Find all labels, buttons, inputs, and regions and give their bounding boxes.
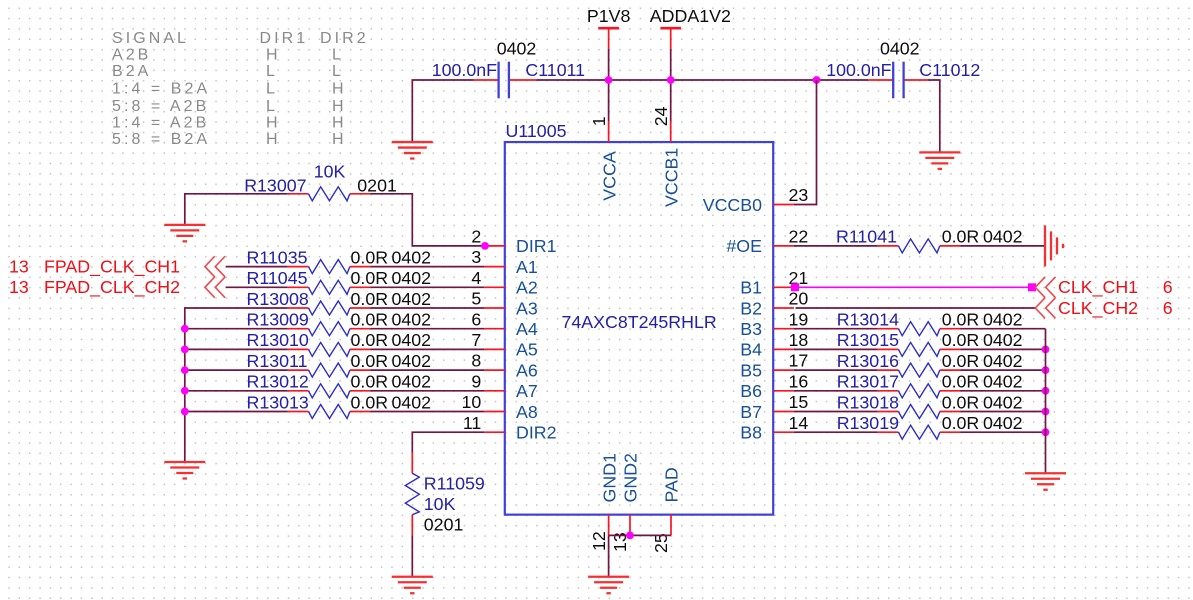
U11005 pin 25 (PAD): [651, 467, 681, 553]
svg-text:12: 12: [589, 531, 609, 551]
wire B2 to port CLK_CH2: [796, 307, 1036, 309]
svg-text:DIR1: DIR1: [516, 236, 557, 256]
svg-text:PAD: PAD: [662, 467, 682, 502]
svg-text:0402: 0402: [983, 310, 1023, 330]
svg-text:L: L: [266, 81, 278, 98]
svg-text:H: H: [332, 115, 347, 132]
svg-text:0402: 0402: [392, 268, 432, 288]
svg-text:H: H: [332, 81, 347, 98]
wire pin to R13018: [794, 411, 878, 413]
ground (R11041, rotated): [1045, 225, 1063, 266]
U11005 pin 18 (B4): [740, 330, 808, 360]
wire FPAD_CLK_CH2 to R11045: [226, 286, 288, 288]
svg-text:15: 15: [789, 392, 809, 412]
resistor R13018: [878, 405, 961, 419]
resistor R13010: [288, 342, 371, 356]
svg-text:ADDA1V2: ADDA1V2: [650, 6, 731, 26]
svg-text:0.0R: 0.0R: [351, 268, 389, 288]
op-amp U11005 body (level translator 74AXC8T245RHLR): [505, 142, 773, 515]
svg-text:R13009: R13009: [247, 310, 309, 330]
svg-text:1:4 = B2A: 1:4 = B2A: [112, 81, 210, 98]
svg-text:H: H: [266, 115, 281, 132]
svg-text:R11035: R11035: [247, 247, 308, 267]
wire VCCB0 riser: [794, 80, 817, 205]
svg-text:10: 10: [462, 392, 482, 412]
svg-text:9: 9: [471, 371, 481, 391]
svg-text:0201: 0201: [424, 515, 464, 535]
svg-text:1: 1: [589, 116, 609, 126]
svg-text:0402: 0402: [392, 372, 432, 392]
junction right bus B5: [1042, 366, 1050, 374]
capacitor C11011: [474, 62, 537, 99]
svg-text:B8: B8: [740, 423, 762, 443]
svg-text:19: 19: [789, 309, 809, 329]
resistor R13008: [288, 301, 371, 315]
junction right bus B7: [1042, 408, 1050, 416]
U11005 pin 1 (VCCA): [589, 116, 620, 200]
wire R13008 to pin: [371, 307, 485, 309]
svg-text:0.0R: 0.0R: [351, 392, 389, 412]
wire GND net to ground: [608, 535, 610, 576]
U11005 pin 2 (DIR1): [471, 227, 556, 257]
U11005 pin 4 (A2): [471, 268, 537, 298]
svg-text:0402: 0402: [983, 413, 1023, 433]
resistor R13007: [288, 187, 371, 201]
svg-text:A1: A1: [516, 257, 538, 277]
svg-text:FPAD_CLK_CH1: FPAD_CLK_CH1: [44, 256, 180, 277]
svg-text:R13012: R13012: [247, 372, 309, 392]
svg-text:B6: B6: [740, 381, 762, 401]
svg-text:R13016: R13016: [837, 351, 899, 371]
svg-text:R11041: R11041: [836, 227, 897, 247]
svg-text:VCCB0: VCCB0: [703, 195, 762, 215]
wire DIR2 to R11059: [412, 432, 484, 452]
U11005 pin 19 (B3): [740, 309, 808, 339]
wire pin to R13014: [794, 328, 878, 330]
svg-text:L: L: [332, 63, 344, 80]
U11005 pin 17 (B5): [740, 351, 808, 381]
U11005 pin 13 (GND2): [610, 453, 641, 552]
svg-text:13: 13: [9, 277, 29, 297]
svg-text:6: 6: [1163, 277, 1173, 297]
svg-text:0.0R: 0.0R: [942, 310, 980, 330]
svg-text:11: 11: [463, 413, 482, 433]
svg-text:2: 2: [471, 227, 481, 247]
wire bus to R1300x (A5): [185, 348, 288, 350]
U11005 pin 7 (A5): [471, 330, 537, 360]
svg-text:1:4 = A2B: 1:4 = A2B: [112, 115, 209, 132]
wire bus to R1300x (A6): [185, 369, 288, 371]
capacitor C11012: [868, 62, 928, 99]
svg-text:0402: 0402: [880, 39, 920, 59]
wire bus to R1300x (A8): [185, 411, 288, 413]
U11005 pin 21 (B1): [740, 268, 808, 298]
svg-text:B5: B5: [740, 360, 762, 380]
U11005 pin 14 (B8): [740, 413, 808, 443]
ground (right bus): [1025, 473, 1066, 490]
svg-text:A7: A7: [516, 381, 538, 401]
svg-text:6: 6: [1163, 298, 1173, 318]
resistor R13019: [878, 425, 961, 439]
svg-text:0.0R: 0.0R: [942, 330, 980, 350]
wire pin to R13017: [794, 390, 878, 392]
svg-text:R13018: R13018: [837, 392, 899, 412]
svg-text:0.0R: 0.0R: [351, 351, 389, 371]
svg-text:H: H: [266, 131, 281, 148]
svg-text:5:8 = B2A: 5:8 = B2A: [112, 131, 210, 148]
U11005 pin 8 (A6): [471, 351, 537, 381]
resistor R11045: [288, 280, 371, 294]
svg-text:13: 13: [9, 256, 29, 276]
svg-text:CLK_CH2: CLK_CH2: [1058, 298, 1138, 319]
net B1 CLK_CH1 (highlighted wire): [791, 283, 1036, 291]
U11005 pin 6 (A4): [471, 309, 537, 339]
svg-text:0402: 0402: [392, 247, 432, 267]
wire C11012 to ground: [928, 80, 940, 152]
wire C11011 to ground: [412, 80, 473, 142]
junction left bus A4: [181, 325, 189, 333]
svg-text:R13007: R13007: [244, 175, 306, 195]
resistor R13009: [288, 322, 371, 336]
resistor R11035: [288, 260, 371, 274]
svg-text:R11045: R11045: [247, 268, 308, 288]
svg-text:0.0R: 0.0R: [351, 247, 389, 267]
U11005 pin 5 (A3): [471, 289, 537, 319]
svg-text:A2B: A2B: [112, 47, 151, 64]
wire P1V8 rail to ADDA1V2 rail: [609, 79, 671, 81]
junction VCCB0 riser: [813, 76, 821, 84]
svg-text:C11011: C11011: [525, 60, 585, 80]
svg-text:0.0R: 0.0R: [942, 351, 980, 371]
port FPAD_CLK_CH1: [9, 256, 225, 277]
svg-text:0402: 0402: [983, 372, 1023, 392]
svg-text:10K: 10K: [424, 494, 456, 514]
svg-text:0.0R: 0.0R: [351, 372, 389, 392]
junction P1V8 / pin 1: [605, 76, 613, 84]
svg-text:16: 16: [789, 371, 809, 391]
svg-text:A6: A6: [516, 360, 538, 380]
power symbol ADDA1V2: [650, 6, 731, 49]
svg-text:DIR2: DIR2: [320, 30, 369, 47]
wire FPAD_CLK_CH1 to R11035: [226, 266, 288, 268]
svg-text:0402: 0402: [392, 310, 432, 330]
svg-text:0.0R: 0.0R: [942, 372, 980, 392]
wire P1V8 to VCCA pin 1: [608, 49, 610, 121]
U11005 pin 9 (A7): [471, 371, 537, 401]
svg-text:0.0R: 0.0R: [942, 227, 980, 247]
svg-text:100.0nF: 100.0nF: [432, 60, 497, 80]
wire R13015 to right bus: [961, 348, 1046, 350]
wire pin to R13016: [794, 369, 878, 371]
svg-text:B2: B2: [740, 298, 762, 318]
junction left bus A6: [181, 366, 189, 374]
svg-text:L: L: [266, 63, 278, 80]
resistor R13011: [288, 363, 371, 377]
U11005 pin 12 (GND1): [589, 453, 620, 551]
svg-text:A5: A5: [516, 340, 538, 360]
U11005 pin 20 (B2): [740, 289, 808, 319]
svg-text:B2A: B2A: [112, 63, 151, 80]
svg-text:R13015: R13015: [837, 330, 899, 350]
svg-text:C11012: C11012: [919, 60, 980, 80]
U11005 pin 24 (VCCB1): [651, 106, 682, 207]
wire pin to R13019: [794, 431, 878, 433]
wire R13016 to right bus: [961, 369, 1046, 371]
svg-text:DIR1: DIR1: [260, 30, 309, 47]
wire R13019 to right bus: [961, 431, 1046, 433]
junction left bus A7: [181, 387, 189, 395]
signal direction table: [112, 30, 369, 148]
svg-text:R13019: R13019: [837, 413, 899, 433]
svg-text:VCCB1: VCCB1: [662, 148, 682, 207]
port FPAD_CLK_CH2: [9, 277, 225, 298]
wire GND1/GND2/PAD tie: [609, 534, 671, 536]
resistor R13017: [878, 384, 961, 398]
ground (under C11011): [392, 142, 433, 159]
svg-text:0402: 0402: [497, 39, 537, 59]
svg-text:4: 4: [471, 268, 481, 288]
svg-text:0201: 0201: [357, 175, 397, 195]
svg-text:L: L: [266, 98, 278, 115]
wire R13017 to right bus: [961, 390, 1046, 392]
svg-text:0.0R: 0.0R: [351, 330, 389, 350]
U11005 pin 11 (DIR2): [463, 413, 557, 443]
svg-text:R13017: R13017: [837, 372, 899, 392]
svg-text:0.0R: 0.0R: [351, 289, 389, 309]
svg-text:0.0R: 0.0R: [942, 392, 980, 412]
svg-text:CLK_CH1: CLK_CH1: [1058, 277, 1138, 298]
svg-text:DIR2: DIR2: [516, 423, 557, 443]
svg-text:A4: A4: [516, 319, 538, 339]
U11005 pin 3 (A1): [471, 247, 537, 277]
junction right bus B8: [1042, 428, 1050, 436]
resistor R13014: [878, 322, 961, 336]
svg-text:H: H: [332, 131, 347, 148]
svg-text:0402: 0402: [392, 351, 432, 371]
wire #OE to R11041: [794, 245, 878, 247]
svg-text:SIGNAL: SIGNAL: [112, 30, 189, 47]
wire R11045 to pin: [371, 286, 485, 288]
wire R13018 to right bus: [961, 411, 1046, 413]
svg-text:0402: 0402: [983, 227, 1023, 247]
svg-text:U11005: U11005: [506, 121, 567, 141]
svg-text:R13013: R13013: [247, 392, 309, 412]
svg-text:6: 6: [471, 309, 481, 329]
wire R11041 to ground: [961, 245, 1046, 247]
svg-text:22: 22: [789, 227, 809, 247]
wire left bus (A3-A8 tie): [185, 308, 288, 462]
svg-text:0402: 0402: [392, 392, 432, 412]
svg-text:H: H: [332, 98, 347, 115]
wire R13007 to DIR1: [371, 194, 485, 246]
svg-text:0402: 0402: [392, 330, 432, 350]
ground (left bus): [164, 462, 205, 479]
svg-text:GND1: GND1: [600, 453, 620, 503]
junction right bus B4: [1042, 346, 1050, 354]
resistor R13012: [288, 384, 371, 398]
svg-text:GND2: GND2: [621, 453, 641, 502]
wire ADDA1V2 to VCCB1 pin 24: [670, 49, 672, 121]
svg-text:H: H: [266, 47, 281, 64]
wire R13007 left to ground: [185, 194, 288, 225]
svg-text:10K: 10K: [314, 162, 346, 182]
wire bus to R1300x (A4): [185, 328, 288, 330]
junction DIR1 pin 2: [481, 242, 489, 250]
svg-text:B3: B3: [740, 319, 762, 339]
svg-text:R11059: R11059: [424, 474, 485, 494]
ground (under C11012): [919, 152, 960, 169]
svg-text:B4: B4: [740, 340, 762, 360]
U11005 pin 23 (VCCB0): [703, 185, 809, 215]
port CLK_CH2: [1035, 298, 1173, 319]
junction left bus A5: [181, 346, 189, 354]
svg-text:14: 14: [789, 413, 809, 433]
wire R13010 to pin: [371, 348, 485, 350]
svg-text:R13011: R13011: [247, 351, 308, 371]
resistor R13013: [288, 405, 371, 419]
svg-text:24: 24: [651, 106, 671, 126]
wire R13009 to pin: [371, 328, 485, 330]
svg-text:0402: 0402: [392, 289, 432, 309]
svg-text:P1V8: P1V8: [587, 6, 631, 26]
port CLK_CH1: [1035, 277, 1173, 298]
wire R13012 to pin: [371, 390, 485, 392]
svg-text:0.0R: 0.0R: [942, 413, 980, 433]
resistor R11041: [878, 239, 961, 253]
svg-text:74AXC8T245RHLR: 74AXC8T245RHLR: [562, 312, 717, 332]
resistor R13016: [878, 363, 961, 377]
svg-text:#OE: #OE: [726, 236, 762, 256]
svg-text:0.0R: 0.0R: [351, 310, 389, 330]
power symbol P1V8: [587, 6, 631, 49]
U11005 pin 16 (B6): [740, 371, 808, 401]
wire right bus (B3-B8 tie): [1045, 329, 1047, 474]
svg-text:5: 5: [471, 289, 481, 309]
ground (R13007): [164, 225, 205, 242]
wire pin to R13015: [794, 348, 878, 350]
svg-text:FPAD_CLK_CH2: FPAD_CLK_CH2: [44, 277, 180, 298]
junction right bus B6: [1042, 387, 1050, 395]
svg-text:0402: 0402: [983, 330, 1023, 350]
svg-text:20: 20: [789, 289, 809, 309]
svg-text:23: 23: [789, 185, 809, 205]
wire ADDA1V2 rail to C11012: [671, 79, 869, 81]
junction GND2 pin 13: [626, 531, 634, 539]
svg-text:A8: A8: [516, 402, 538, 422]
svg-text:B7: B7: [740, 402, 762, 422]
svg-text:R13008: R13008: [247, 289, 309, 309]
svg-text:VCCA: VCCA: [599, 151, 619, 201]
wire C11011 to P1V8 rail: [536, 79, 608, 81]
wire R13014 to right bus (corner): [961, 328, 1046, 330]
ground (U11005 GND pins): [588, 577, 629, 594]
wire R11035 to pin: [371, 266, 485, 268]
svg-text:R13010: R13010: [247, 330, 309, 350]
U11005 pin 15 (B7): [740, 392, 808, 422]
svg-text:100.0nF: 100.0nF: [826, 60, 891, 80]
resistor R11059: [405, 453, 419, 536]
junction ADDA1V2 / pin 24: [667, 76, 675, 84]
wire R13013 to pin: [371, 411, 485, 413]
svg-text:B1: B1: [740, 278, 762, 298]
wire bus to R1300x (A7): [185, 390, 288, 392]
svg-text:7: 7: [471, 330, 481, 350]
U11005 pin 22 (#OE): [726, 227, 808, 257]
svg-text:L: L: [332, 47, 344, 64]
junction left bus A8: [181, 408, 189, 416]
U11005 pin 10 (A8): [462, 392, 538, 422]
svg-text:8: 8: [471, 351, 481, 371]
wire R13011 to pin: [371, 369, 485, 371]
svg-text:0402: 0402: [983, 392, 1023, 412]
svg-text:17: 17: [789, 351, 809, 371]
ground (R11059): [392, 577, 433, 594]
svg-text:5:8 = A2B: 5:8 = A2B: [112, 98, 209, 115]
svg-text:R13014: R13014: [837, 310, 899, 330]
wire R11059 to ground: [411, 535, 413, 576]
svg-text:18: 18: [789, 330, 809, 350]
svg-text:A3: A3: [516, 298, 538, 318]
svg-text:A2: A2: [516, 278, 538, 298]
resistor R13015: [878, 342, 961, 356]
svg-text:0402: 0402: [983, 351, 1023, 371]
svg-text:3: 3: [471, 247, 481, 267]
